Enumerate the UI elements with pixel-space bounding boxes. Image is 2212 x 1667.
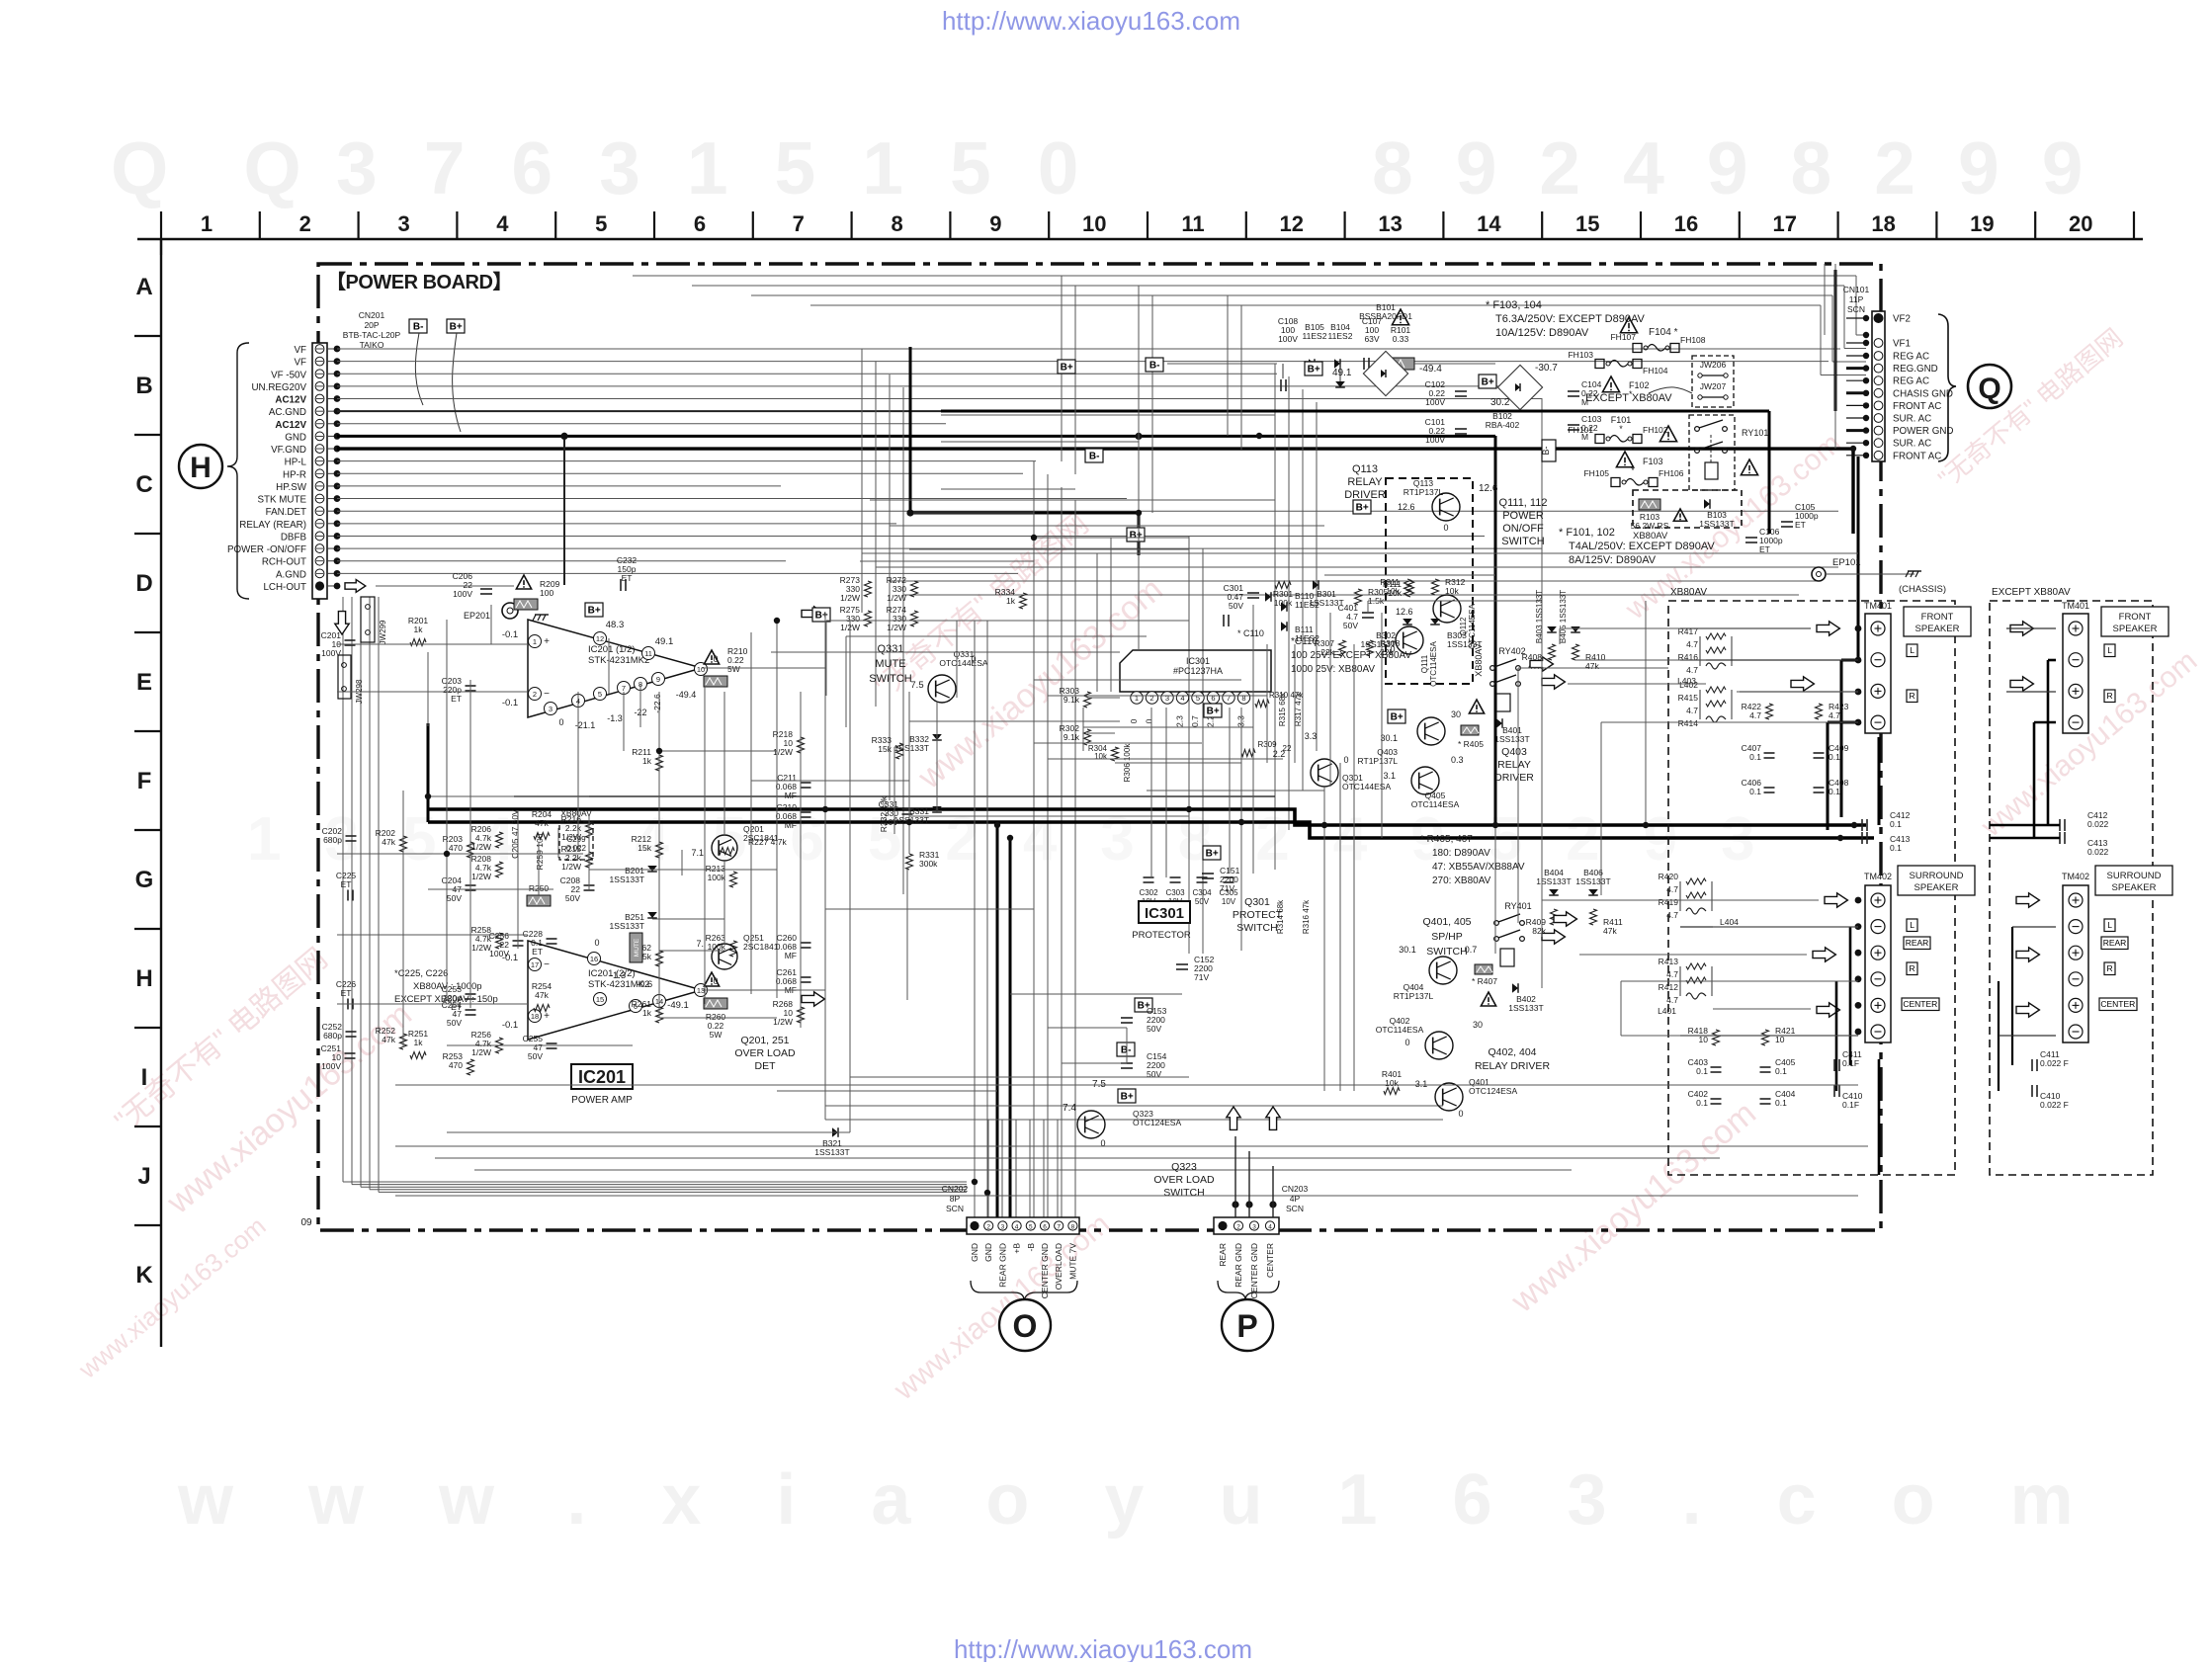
svg-text:C: C xyxy=(135,471,152,498)
svg-text:RELAY: RELAY xyxy=(1497,759,1531,771)
svg-text:ET: ET xyxy=(451,694,462,704)
filter network R417/R416/L403 xyxy=(1706,636,1740,680)
svg-text:(CHASSIS): (CHASSIS) xyxy=(1899,584,1946,595)
svg-text:AC12V: AC12V xyxy=(275,395,306,406)
C412 C413 caps on bus xyxy=(1861,819,1863,831)
svg-text:1k: 1k xyxy=(642,1008,652,1018)
svg-text:0.1: 0.1 xyxy=(1775,1098,1787,1108)
FRONT SPEAKER label xyxy=(1904,607,1971,636)
svg-text:DRIVER: DRIVER xyxy=(1344,489,1386,501)
svg-text:B-: B- xyxy=(1541,446,1551,455)
svg-text:C302: C302 xyxy=(1139,888,1158,897)
svg-text:ET: ET xyxy=(1795,520,1806,530)
dots above CN203 xyxy=(1232,1201,1238,1208)
svg-text:SWITCH: SWITCH xyxy=(1501,536,1544,547)
svg-text:-0.1: -0.1 xyxy=(502,698,518,708)
wire bundle: verticals x≈1046..1088 xyxy=(1033,461,1035,1217)
F102 warning xyxy=(1602,376,1619,392)
svg-text:OTC144ESA: OTC144ESA xyxy=(1342,782,1391,792)
svg-text:5W: 5W xyxy=(710,1030,723,1040)
svg-text:TM402: TM402 xyxy=(1864,872,1892,881)
svg-text:100V: 100V xyxy=(1425,397,1445,407)
svg-text:CENTER: CENTER xyxy=(2100,999,2135,1009)
extra top verticals xyxy=(1061,276,1063,461)
R331 xyxy=(906,854,913,870)
svg-text:R: R xyxy=(1910,691,1915,701)
svg-text:OTC114ESA: OTC114ESA xyxy=(1411,799,1460,809)
svg-text:CHASIS GND: CHASIS GND xyxy=(1893,388,1953,399)
svg-text:0.1: 0.1 xyxy=(1775,1066,1787,1076)
svg-text:OVERLOAD: OVERLOAD xyxy=(1054,1243,1063,1290)
svg-text:9: 9 xyxy=(989,211,1001,236)
svg-text:0.022: 0.022 xyxy=(2087,819,2109,829)
svg-text:50V: 50V xyxy=(528,1051,543,1061)
svg-text:−: − xyxy=(544,959,550,970)
svg-text:T6.3A/250V: EXCEPT D890AV: T6.3A/250V: EXCEPT D890AV xyxy=(1495,313,1645,325)
svg-text:47k: 47k xyxy=(382,1035,395,1044)
svg-text:10V: 10V xyxy=(884,817,898,827)
svg-text:12.6: 12.6 xyxy=(1479,483,1498,494)
svg-text:B-: B- xyxy=(1149,361,1160,372)
svg-text:http://www.xiaoyu163.com: http://www.xiaoyu163.com xyxy=(954,1634,1252,1662)
svg-text:1SS133T: 1SS133T xyxy=(1494,734,1529,744)
svg-text:47k: 47k xyxy=(1603,926,1617,936)
wire bundle: left verticals descending to bottom bus xyxy=(342,597,344,1182)
svg-text:BTB-TAC-L20P: BTB-TAC-L20P xyxy=(343,330,401,340)
svg-text:RY402: RY402 xyxy=(1498,646,1525,656)
svg-text:L: L xyxy=(1910,645,1914,655)
svg-text:3: 3 xyxy=(1165,694,1169,703)
svg-text:B403 1SS133T: B403 1SS133T xyxy=(1535,590,1544,643)
svg-text:POWER -ON/OFF: POWER -ON/OFF xyxy=(227,544,306,555)
svg-text:2: 2 xyxy=(986,1224,990,1231)
svg-text:4: 4 xyxy=(1180,694,1184,703)
svg-text:11ES2: 11ES2 xyxy=(1328,331,1353,341)
Q113 relay driver dashed box xyxy=(1386,478,1473,684)
svg-text:XB80AV: XB80AV xyxy=(560,808,592,818)
svg-text:OTC144ESA: OTC144ESA xyxy=(939,658,987,668)
extra mid mesh xyxy=(870,499,1275,501)
svg-text:VF: VF xyxy=(294,358,306,369)
top right horizontal bundle into CN101 xyxy=(633,275,1856,277)
svg-text:0.022: 0.022 xyxy=(566,844,587,853)
svg-text:AC.GND: AC.GND xyxy=(269,407,306,418)
caps C102 C101 xyxy=(1455,390,1467,392)
svg-text:SCN: SCN xyxy=(946,1204,964,1213)
svg-text:15: 15 xyxy=(596,995,604,1004)
capacitor C107 xyxy=(1363,358,1365,370)
svg-text:3: 3 xyxy=(397,211,409,236)
svg-text:L: L xyxy=(1910,920,1914,930)
svg-text:EP201: EP201 xyxy=(464,611,490,621)
junction dots on buses xyxy=(561,433,567,439)
svg-text:REG AC: REG AC xyxy=(1893,376,1929,387)
C411 C410 xyxy=(1833,1059,1835,1071)
thick vertical x=1513 to mid bus xyxy=(1494,436,1497,825)
passive component cluster around IC201 xyxy=(345,639,356,641)
svg-text:R310 47k: R310 47k xyxy=(1269,691,1304,700)
svg-text:47k: 47k xyxy=(535,818,549,828)
svg-text:VF2: VF2 xyxy=(1893,314,1911,325)
svg-text:SPEAKER: SPEAKER xyxy=(2112,882,2157,893)
svg-text:B+: B+ xyxy=(450,322,463,333)
svg-text:Q113: Q113 xyxy=(1352,463,1378,475)
svg-text:O: O xyxy=(1013,1308,1038,1344)
svg-text:Q402, 404: Q402, 404 xyxy=(1488,1046,1536,1058)
svg-text:IC301: IC301 xyxy=(1145,905,1184,922)
svg-text:MUTE 7V: MUTE 7V xyxy=(1067,1243,1077,1280)
svg-text:XB80AV : 1000p: XB80AV : 1000p xyxy=(413,981,482,992)
svg-text:10k: 10k xyxy=(1385,1078,1399,1088)
SURROUND SPEAKER label xyxy=(1898,866,1975,895)
svg-text:REG.GND: REG.GND xyxy=(1893,364,1938,375)
svg-text:14: 14 xyxy=(1477,211,1501,236)
transistor Q112 xyxy=(1433,595,1461,623)
connector CN201 body xyxy=(312,343,327,599)
svg-text:CN203: CN203 xyxy=(1282,1184,1309,1194)
verticals into CN202 xyxy=(987,1120,989,1217)
vertical x=1560 xyxy=(1541,398,1543,988)
svg-text:SWITCH: SWITCH xyxy=(1236,922,1277,934)
fuse holders FH103 FH104 xyxy=(1595,360,1604,369)
svg-text:OTC124ESA: OTC124ESA xyxy=(1133,1118,1181,1127)
svg-text:1: 1 xyxy=(533,637,537,646)
svg-text:#PC1237HA: #PC1237HA xyxy=(1173,666,1223,676)
svg-text:ET: ET xyxy=(532,947,543,957)
svg-text:EXCEPT XB80AV: EXCEPT XB80AV xyxy=(1585,392,1672,404)
resistor R209 (fusible) xyxy=(516,575,531,589)
svg-text:7: 7 xyxy=(622,684,626,693)
svg-text:* F101, 102: * F101, 102 xyxy=(1559,527,1615,539)
svg-text:4: 4 xyxy=(496,211,509,236)
svg-text:L: L xyxy=(2107,645,2112,655)
svg-text:B: B xyxy=(135,373,152,399)
svg-text:470: 470 xyxy=(449,1060,463,1070)
svg-text:8: 8 xyxy=(1071,1224,1075,1231)
svg-text:XB80AV: XB80AV xyxy=(1670,587,1707,598)
svg-text:MF: MF xyxy=(785,951,797,960)
svg-text:FH106: FH106 xyxy=(1659,468,1684,478)
XB80AV dashed box C299 xyxy=(559,822,593,860)
svg-text:PROTECTOR: PROTECTOR xyxy=(1132,930,1191,941)
svg-text:L: L xyxy=(2107,920,2112,930)
svg-text:30: 30 xyxy=(1451,709,1461,719)
svg-text:B+: B+ xyxy=(588,606,601,617)
B- label box top xyxy=(1146,358,1163,372)
svg-text:0.022 F: 0.022 F xyxy=(2040,1058,2069,1068)
wire bundle: verticals x≈1290..1332 xyxy=(1274,364,1276,870)
fuse holders FH101 FH102 xyxy=(1595,435,1604,444)
svg-text:SWITCH: SWITCH xyxy=(1426,946,1467,958)
node Q circle xyxy=(1968,365,2011,408)
leader curves from B-/B+ xyxy=(415,333,423,405)
svg-text:6: 6 xyxy=(694,211,706,236)
R301/B301/R305 row xyxy=(1275,582,1291,589)
svg-text:100 25V: EXCEPT XB80AV: 100 25V: EXCEPT XB80AV xyxy=(1291,650,1411,661)
svg-text:10V: 10V xyxy=(1222,897,1236,906)
svg-text:EXCEPT XB80AV: EXCEPT XB80AV xyxy=(1992,587,2071,598)
svg-text:8: 8 xyxy=(1241,694,1245,703)
wire mesh amp region horizontals xyxy=(337,643,528,645)
B- rotated box xyxy=(1542,440,1556,461)
svg-text:0: 0 xyxy=(558,717,563,727)
wire mesh amp region verticals xyxy=(469,680,471,1008)
svg-text:【POWER BOARD】: 【POWER BOARD】 xyxy=(326,271,512,293)
svg-text:1k: 1k xyxy=(414,1038,424,1047)
svg-text:1/2W: 1/2W xyxy=(887,593,906,603)
svg-text:0.1: 0.1 xyxy=(1829,787,1840,796)
svg-text:892498299: 892498299 xyxy=(1372,126,2125,209)
svg-text:15k: 15k xyxy=(638,843,651,853)
svg-text:SCN: SCN xyxy=(1847,304,1865,314)
svg-text:0.1: 0.1 xyxy=(1749,787,1761,796)
svg-text:F: F xyxy=(137,768,152,794)
svg-text:R419: R419 xyxy=(1659,897,1679,907)
junction dots on GND bus xyxy=(560,433,567,440)
svg-text:680p: 680p xyxy=(323,835,342,845)
svg-text:4.7: 4.7 xyxy=(1829,710,1840,720)
EXCEPT side caps C412/C413/C411/C410 xyxy=(2059,819,2061,831)
svg-text:B+: B+ xyxy=(1308,365,1320,375)
svg-text:12.6: 12.6 xyxy=(1396,607,1413,617)
pins IC201a xyxy=(529,635,542,648)
R307 R308 xyxy=(1339,640,1346,656)
svg-text:B+: B+ xyxy=(1482,377,1494,388)
warning triangle F xyxy=(1392,309,1408,325)
wires into CN203 xyxy=(1234,1205,1236,1217)
svg-text:C299: C299 xyxy=(566,835,586,844)
svg-text:0: 0 xyxy=(1343,755,1348,765)
svg-text:50V: 50V xyxy=(447,893,462,903)
svg-text:REAR: REAR xyxy=(2103,938,2127,948)
svg-text:5: 5 xyxy=(598,690,602,699)
svg-text:-1.3: -1.3 xyxy=(607,713,623,723)
svg-text:47k: 47k xyxy=(1585,661,1599,671)
svg-text:Q111, 112: Q111, 112 xyxy=(1499,497,1548,509)
svg-text:*: * xyxy=(1619,424,1623,434)
terminal EP101 xyxy=(1812,567,1826,581)
svg-text:100V: 100V xyxy=(321,648,341,658)
svg-text:GND: GND xyxy=(285,432,306,443)
svg-text:0.1: 0.1 xyxy=(1696,1098,1708,1108)
svg-text:-49.4: -49.4 xyxy=(676,690,697,700)
svg-text:10: 10 xyxy=(697,665,705,674)
svg-text:0: 0 xyxy=(1145,718,1154,723)
thick wire VF.GND to CN101 area xyxy=(1851,449,1854,534)
resistor R101 xyxy=(1387,358,1414,370)
svg-text:100k: 100k xyxy=(708,873,726,882)
svg-text:12: 12 xyxy=(1280,211,1304,236)
CN203 brace + node P xyxy=(1218,1281,1279,1300)
svg-text:2: 2 xyxy=(1236,1224,1240,1231)
dashed box R103/B103 XB80AV xyxy=(1633,490,1742,528)
svg-text:B+: B+ xyxy=(1061,363,1073,374)
svg-text:CN201: CN201 xyxy=(359,310,385,320)
svg-text:100V: 100V xyxy=(453,589,472,599)
svg-text:MF: MF xyxy=(785,791,797,800)
svg-text:DBFB: DBFB xyxy=(281,532,307,542)
svg-text:4.7: 4.7 xyxy=(1666,995,1678,1005)
svg-text:GND: GND xyxy=(983,1243,993,1262)
svg-text:5: 5 xyxy=(1196,694,1200,703)
svg-text:1SS133T: 1SS133T xyxy=(610,921,644,931)
svg-text:http://www.xiaoyu163.com: http://www.xiaoyu163.com xyxy=(942,6,1240,36)
svg-text:EP101: EP101 xyxy=(1832,557,1861,568)
svg-text:RT1P137L: RT1P137L xyxy=(1394,991,1434,1001)
svg-text:100V: 100V xyxy=(1278,334,1298,344)
capacitor C106 xyxy=(1745,537,1757,539)
svg-text:5W: 5W xyxy=(727,664,740,674)
svg-text:VF.GND: VF.GND xyxy=(271,445,306,456)
svg-text:REAR GND: REAR GND xyxy=(997,1243,1007,1288)
svg-text:TM401: TM401 xyxy=(1864,601,1892,611)
dashed box EXCEPT XB80AV speakers xyxy=(1990,601,2153,1175)
svg-text:ET: ET xyxy=(341,988,352,998)
power board dash-dot border xyxy=(318,264,1881,1230)
svg-text:1/2W: 1/2W xyxy=(840,593,860,603)
svg-text:4.7: 4.7 xyxy=(1686,665,1698,675)
svg-text:4.7: 4.7 xyxy=(1666,910,1678,920)
svg-text:47: XB55AV/XB88AV: 47: XB55AV/XB88AV xyxy=(1432,862,1525,873)
chassis ground xyxy=(1908,570,1921,572)
jumper JW299 xyxy=(361,597,375,642)
svg-text:VF1: VF1 xyxy=(1893,339,1911,350)
svg-text:1/2W: 1/2W xyxy=(471,1047,491,1057)
svg-text:4: 4 xyxy=(1268,1224,1272,1231)
brace Q xyxy=(1938,314,1956,461)
svg-text:I: I xyxy=(141,1064,148,1091)
svg-text:63V: 63V xyxy=(1364,334,1379,344)
svg-text:0.022 F: 0.022 F xyxy=(2040,1100,2069,1110)
svg-text:+: + xyxy=(544,1011,550,1022)
Q403 relay driver xyxy=(1388,709,1405,723)
svg-text:71V: 71V xyxy=(1194,972,1209,982)
svg-text:-22.6: -22.6 xyxy=(652,694,662,713)
svg-text:FH101: FH101 xyxy=(1568,425,1593,435)
svg-text:POWER AMP: POWER AMP xyxy=(571,1095,633,1106)
svg-text:RT1P137L: RT1P137L xyxy=(1358,756,1399,766)
svg-text:49.1: 49.1 xyxy=(655,636,674,647)
speaker wires EXCEPT TM401/402 xyxy=(2047,660,2050,825)
svg-text:8A/125V: D890AV: 8A/125V: D890AV xyxy=(1569,554,1657,566)
svg-text:Q331: Q331 xyxy=(878,643,904,655)
svg-text:LCH-OUT: LCH-OUT xyxy=(263,582,306,593)
right section feed horizontals xyxy=(1560,627,1811,629)
svg-text:50V: 50V xyxy=(1343,621,1358,630)
thick bus into EXCEPT box xyxy=(1990,824,2060,827)
capacitor C108 xyxy=(1280,379,1282,391)
svg-text:0.3: 0.3 xyxy=(1451,755,1464,765)
cap C151 xyxy=(1202,873,1214,875)
svg-text:L401: L401 xyxy=(1658,1006,1676,1016)
svg-text:0.1: 0.1 xyxy=(1749,752,1761,762)
svg-text:STK-4231MK2: STK-4231MK2 xyxy=(588,655,649,666)
connector CN101 body xyxy=(1872,311,1885,461)
svg-text:OVER LOAD: OVER LOAD xyxy=(1153,1174,1215,1186)
svg-text:1k: 1k xyxy=(1006,596,1016,606)
svg-text:JW206: JW206 xyxy=(1700,360,1727,370)
thick vertical from GND bus to C232 xyxy=(563,436,565,585)
svg-text:B+: B+ xyxy=(1121,1092,1134,1103)
svg-text:Q: Q xyxy=(1978,373,2000,405)
svg-text:3.3: 3.3 xyxy=(1305,731,1318,741)
svg-text:1/2W: 1/2W xyxy=(471,842,491,852)
node H circle xyxy=(179,445,222,488)
svg-text:1SS133T: 1SS133T xyxy=(1699,519,1734,529)
filter networks TM402 xyxy=(1686,881,1720,925)
svg-text:10: 10 xyxy=(1082,211,1106,236)
jumper JW298 xyxy=(338,655,351,699)
IC201 label box xyxy=(571,1064,633,1089)
svg-text:30.1: 30.1 xyxy=(1399,945,1416,955)
svg-text:16: 16 xyxy=(1674,211,1698,236)
IC301 protector chip xyxy=(1120,650,1271,692)
caps under IC301 xyxy=(1144,876,1154,878)
svg-text:SPEAKER: SPEAKER xyxy=(1914,882,1959,893)
svg-text:0.1: 0.1 xyxy=(1829,752,1840,762)
svg-text:SUR. AC: SUR. AC xyxy=(1893,414,1931,425)
svg-text:GND: GND xyxy=(970,1243,979,1262)
svg-text:B+: B+ xyxy=(815,611,828,622)
svg-text:R: R xyxy=(2107,963,2113,973)
svg-text:FH107: FH107 xyxy=(1610,332,1636,342)
diode B104 xyxy=(1334,359,1340,369)
svg-text:7: 7 xyxy=(793,211,805,236)
svg-text:CENTER GND: CENTER GND xyxy=(1249,1243,1259,1298)
svg-text:FAN.DET: FAN.DET xyxy=(266,507,306,518)
Q401 xyxy=(1384,1088,1400,1095)
svg-text:CENTER: CENTER xyxy=(1903,999,1937,1009)
svg-text:7.: 7. xyxy=(696,939,704,949)
svg-text:* F103, 104: * F103, 104 xyxy=(1486,299,1542,311)
svg-text:Q111: Q111 xyxy=(1420,654,1429,673)
svg-text:8: 8 xyxy=(891,211,902,236)
svg-text:9.1k: 9.1k xyxy=(1063,732,1080,742)
svg-text:2SC1841: 2SC1841 xyxy=(743,833,779,843)
C403 C405 C402 C404 xyxy=(1711,1066,1722,1068)
svg-text:1: 1 xyxy=(201,211,213,236)
svg-text:R414: R414 xyxy=(1678,718,1699,728)
svg-text:B-: B- xyxy=(413,322,424,333)
svg-text:18: 18 xyxy=(1871,211,1895,236)
svg-text:www.xiaoyu163.com: www.xiaoyu163.com xyxy=(177,1460,2149,1540)
svg-text:B+: B+ xyxy=(1207,707,1220,717)
svg-text:A.GND: A.GND xyxy=(276,569,306,580)
svg-text:FH105: FH105 xyxy=(1583,468,1609,478)
svg-text:SURROUND: SURROUND xyxy=(1910,871,1964,881)
svg-text:IC201: IC201 xyxy=(578,1067,626,1087)
svg-text:VF: VF xyxy=(294,345,306,356)
svg-text:* R405, 407: * R405, 407 xyxy=(1420,834,1473,845)
svg-text:K: K xyxy=(135,1262,153,1289)
svg-text:Q301: Q301 xyxy=(1244,896,1270,908)
svg-text:17: 17 xyxy=(1773,211,1797,236)
op-amp IC201 (1/2) triangle xyxy=(528,620,702,717)
svg-text:6: 6 xyxy=(1211,694,1215,703)
transistor Q111 xyxy=(1396,626,1423,654)
svg-text:19: 19 xyxy=(1970,211,1994,236)
svg-text:TM401: TM401 xyxy=(2062,601,2089,611)
svg-text:7: 7 xyxy=(1057,1224,1061,1231)
svg-text:4P: 4P xyxy=(1290,1194,1301,1204)
svg-text:REAR: REAR xyxy=(1218,1243,1228,1267)
svg-text:1SS133T: 1SS133T xyxy=(1508,1003,1543,1013)
svg-text:0.7: 0.7 xyxy=(1465,945,1478,955)
svg-text:B-: B- xyxy=(1089,452,1100,462)
svg-text:5: 5 xyxy=(595,211,607,236)
LCH-OUT arrow xyxy=(345,579,356,583)
svg-text:48.3: 48.3 xyxy=(606,620,625,630)
